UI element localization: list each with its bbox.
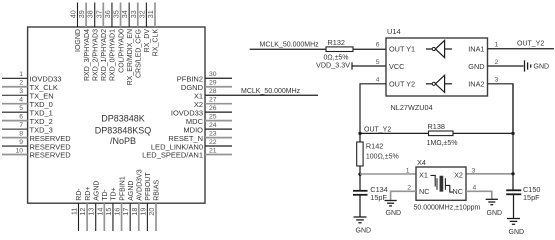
wire left rail down through R142 [359,133,361,142]
svg-text:10: 10 [15,147,23,154]
pin 27 X2 wire [194,97,232,109]
resistor R132 0ohm 5% [324,38,354,62]
svg-text:23: 23 [209,130,217,137]
svg-text:27: 27 [209,97,217,104]
capacitor C134 15pF [353,185,388,202]
svg-text:7: 7 [19,122,23,129]
pin 23 RESET_N wire [168,130,232,142]
ground symbol below C150 [507,219,524,236]
svg-text:OUT_Y2: OUT_Y2 [517,41,544,48]
junction right rail / X2 [511,172,514,175]
wire U14 pin3 down to right rail [488,84,514,134]
U14 pin 2 GND [468,59,498,71]
pin 19 PFBOUT wire [138,172,152,231]
svg-text:LED_SPEED/AN1: LED_SPEED/AN1 [142,151,203,160]
svg-text:NC: NC [419,187,430,196]
svg-text:GND: GND [487,210,503,217]
pin 29 DGND wire [181,80,232,92]
svg-text:IOGND: IOGND [75,29,82,52]
IC U? DP83848K body [28,27,205,203]
svg-text:RX_DV: RX_DV [144,29,151,53]
svg-text:29: 29 [209,80,217,87]
junction right rail / R138 [511,132,514,135]
pin 7 TXD_3 wire [2,122,53,134]
svg-text:1MΩ,±5%: 1MΩ,±5% [427,140,458,147]
wire crystal pin4 NC to ground [466,185,492,199]
pin 1 IOVDD33 wire [2,71,62,83]
op-amp U14 NL27WZU04 body [386,27,488,112]
svg-text:DP83848K: DP83848K [101,113,145,123]
svg-text:RXD_2/PHYAD3: RXD_2/PHYAD3 [92,29,99,81]
svg-text:OUT Y1: OUT Y1 [389,45,415,54]
pin 31 RX_CLK wire [146,3,160,57]
svg-text:R138: R138 [428,122,445,131]
svg-text:15pF: 15pF [370,193,387,202]
svg-text:3: 3 [495,77,499,84]
pin 24 MDIO wire [183,122,232,134]
svg-text:GND: GND [468,62,484,71]
pin 17 AGND wire [121,181,135,231]
svg-text:COL/PHYAD0: COL/PHYAD0 [118,29,125,73]
wire C134 to ground [359,195,361,217]
inverter gate 1 inside U14 [426,40,452,57]
svg-text:20: 20 [147,208,156,216]
svg-text:NL27WZU04: NL27WZU04 [391,103,433,112]
svg-text:28: 28 [209,88,217,95]
svg-text:X1: X1 [419,171,428,180]
svg-text:100Ω,±5%: 100Ω,±5% [366,153,399,160]
pin 25 MDC wire [186,113,232,125]
resistor R138 1Mohm 5% [427,122,458,147]
node OUT_Y2 junction on left rail [358,127,391,135]
svg-text:3: 3 [472,167,476,174]
wire U14 pin1 to net OUT_Y2 [488,41,555,49]
svg-text:VCC: VCC [389,62,404,71]
svg-text:RD-: RD- [76,188,83,201]
junction left rail / X1 [358,173,361,176]
wire C150 to ground [513,194,515,218]
svg-text:GND: GND [386,210,402,217]
wire left rail down to C134 [359,174,361,191]
svg-text:OUT Y2: OUT Y2 [389,80,415,89]
U14 pin 1 INA1 [468,42,498,54]
pin 28 X1 wire / net MCLK_50.000MHz [194,88,318,101]
pin 39 RXD_3/PHYAD4 wire [77,3,91,82]
pin 26 IOVDD33 wire [171,105,232,117]
svg-text:AVDD3V3: AVDD3V3 [136,169,143,200]
svg-text:5: 5 [376,59,380,66]
svg-text:X2: X2 [454,171,463,180]
pin 36 RXD_0/PHYAD1 wire [103,3,117,82]
svg-text:RX_ER/MDIX_EN: RX_ER/MDIX_EN [127,29,134,85]
svg-text:25: 25 [209,113,217,120]
svg-text:X4: X4 [417,158,426,167]
pin 14 TD- wire [95,188,109,231]
svg-text:50.0000MHz,±10ppm: 50.0000MHz,±10ppm [414,205,481,212]
svg-text:1: 1 [406,167,410,174]
svg-text:2: 2 [19,80,23,87]
svg-text:INA1: INA1 [468,45,484,54]
svg-text:MCLK_50.000MHz: MCLK_50.000MHz [260,41,320,48]
pin 38 RXD_2/PHYAD3 wire [86,3,100,82]
crystal X4 body 50MHz [414,158,481,212]
capacitor C150 15pF [506,185,540,202]
pin 10 RESERVED wire [2,147,71,159]
svg-text:RBIAS: RBIAS [154,179,161,200]
pin 30 PFBIN2 wire [177,71,232,83]
pin 12 RD+ wire [78,187,92,231]
svg-text:RXD_1/PHYAD2: RXD_1/PHYAD2 [101,29,108,81]
pin 37 RXD_1/PHYAD2 wire [94,3,108,82]
svg-text:GND: GND [534,64,550,71]
svg-text:NC: NC [452,187,463,196]
pin 6 TXD_2 wire [2,113,53,125]
pin 15 TD+ wire [104,187,118,231]
svg-text:AGND: AGND [128,181,135,201]
pin 4 TXD_0 wire [2,97,53,109]
U14 pin 5 VCC [376,59,405,71]
wire crystal pin3 to right rail [466,173,513,175]
IC value DP83848K / DP83848KSQ /NoPB [95,113,152,146]
inverter gate 2 inside U14 [426,75,452,92]
U14 pin 4 OUT Y2 [376,77,415,89]
ground symbol at crystal pin4 [486,199,502,217]
svg-text:RESERVED: RESERVED [30,151,72,160]
pin 9 RESERVED wire [2,139,71,151]
svg-text:PFBOUT: PFBOUT [145,172,152,201]
pin 3 TX_EN wire [2,88,54,100]
svg-text:CRS/LED_CFG: CRS/LED_CFG [135,29,142,78]
svg-text:MCLK_50.000MHz: MCLK_50.000MHz [241,88,301,95]
crystal symbol inside X4 [431,175,454,192]
svg-text:6: 6 [19,113,23,120]
svg-text:4: 4 [376,77,380,84]
wire U14 pin2 to GND [488,65,524,67]
svg-text:RX_CLK: RX_CLK [153,29,160,57]
svg-text:GND: GND [356,227,372,234]
svg-text:PFBIN1: PFBIN1 [119,176,126,201]
svg-text:31: 31 [146,10,155,18]
svg-text:5: 5 [19,105,23,112]
pin 33 CRS/LED_CFG wire [129,3,143,79]
pin 8 RESERVED wire [2,130,71,142]
wire R142 to X1 node [359,166,361,174]
svg-text:X1: X1 [194,91,203,100]
pin 20 RBIAS wire [147,179,161,231]
pin 34 RX_ER/MDIX_EN wire [120,3,134,86]
svg-text:INA2: INA2 [468,80,484,89]
pin 32 RX_DV wire [137,3,151,53]
svg-text:GND: GND [509,229,525,236]
svg-text:4: 4 [19,97,23,104]
wire X1 node to crystal pin1 [360,173,416,175]
svg-text:RXD_3/PHYAD4: RXD_3/PHYAD4 [84,29,91,81]
wire U14 pin4 down to left rail [360,84,386,134]
wire crystal pin2 NC to ground [391,185,416,200]
svg-text:/NoPB: /NoPB [110,136,136,146]
pin 2 TX_CLK wire [2,80,58,92]
svg-text:26: 26 [209,105,217,112]
svg-text:R142: R142 [366,141,383,150]
svg-text:22: 22 [209,139,217,146]
wire R132 to U14 pin6 [353,48,386,50]
svg-text:TD-: TD- [102,188,109,200]
svg-text:RXD_0/PHYAD1: RXD_0/PHYAD1 [110,29,117,81]
pin 13 AGND wire [87,181,101,231]
svg-text:24: 24 [209,122,217,129]
svg-text:TD+: TD+ [111,187,118,200]
svg-text:DP83848KSQ: DP83848KSQ [95,125,152,135]
pin 22 LED_LINK/AN0 wire [151,139,232,151]
wire right rail down to C150 [512,84,514,191]
svg-text:3: 3 [19,88,23,95]
resistor R142 100ohm 5% [357,141,399,166]
ground symbol at crystal pin2 [385,201,402,217]
svg-text:VDD_3.3V: VDD_3.3V [316,61,350,70]
svg-text:8: 8 [19,130,23,137]
pin 16 PFBIN1 wire [113,176,127,231]
pin 5 TXD_1 wire [2,105,53,117]
pin 11 RD- wire [70,188,84,231]
svg-text:OUT_Y2: OUT_Y2 [364,127,391,134]
svg-text:RD+: RD+ [85,187,92,201]
net label MCLK_50.000MHz wire to R132 [250,41,326,49]
pin 40 IOGND wire [69,3,83,52]
U14 pin 6 OUT Y1 [376,42,415,54]
svg-text:AGND: AGND [93,181,100,201]
pin 21 LED_SPEED/AN1 wire [142,147,232,159]
svg-text:21: 21 [209,147,217,154]
ground symbol below C134 [354,217,372,234]
wire R138 to right rail [453,132,513,134]
svg-text:15pF: 15pF [523,193,540,202]
wire OUT_Y2 node to R138 [360,132,429,134]
svg-text:2: 2 [495,59,499,66]
svg-text:U14: U14 [387,27,401,36]
svg-text:6: 6 [376,42,380,49]
svg-text:1: 1 [19,71,23,78]
svg-text:9: 9 [19,139,23,146]
pin 18 AVDD3V3 wire [130,169,144,231]
svg-text:R132: R132 [328,38,345,47]
svg-text:1: 1 [495,42,499,49]
pin 35 COL/PHYAD0 wire [112,3,126,73]
ground symbol at U14 pin2 (rotated) [525,60,550,71]
power net VDD_3.3V to U14 pin5 [316,61,386,70]
U14 pin 3 INA2 [468,77,498,89]
svg-text:30: 30 [209,71,217,78]
